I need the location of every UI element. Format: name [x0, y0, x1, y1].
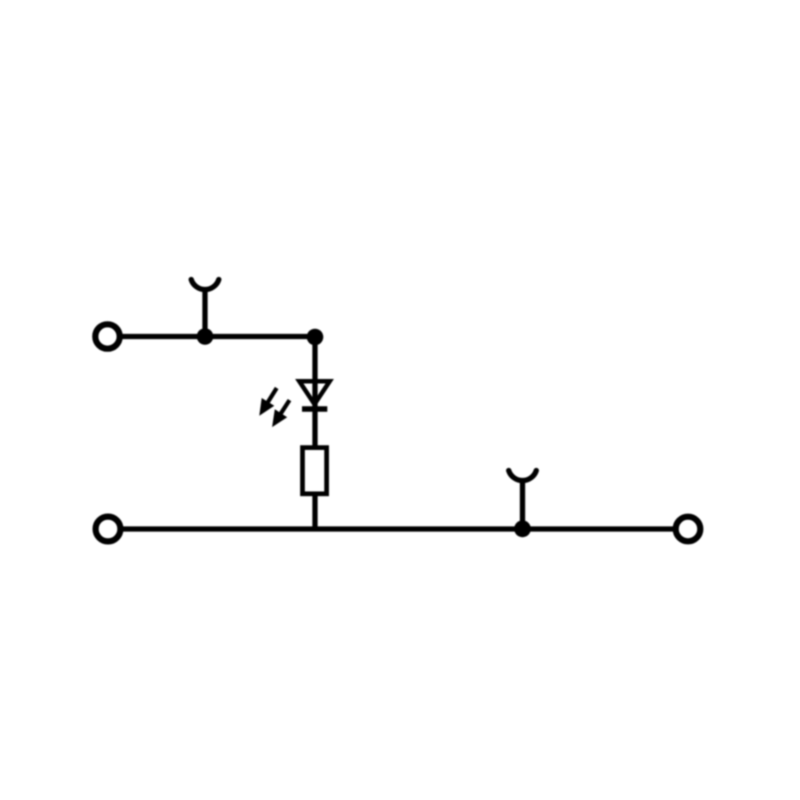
LED D1 cathode bar — [302, 406, 327, 412]
LED D1 light arrow 1 — [259, 388, 276, 416]
terminal circle (bottom-left lead) — [96, 517, 121, 542]
wire (resistor to bottom rail) — [312, 494, 317, 532]
LED D1 light arrow 2 — [272, 400, 289, 427]
wire (tap stem A) — [202, 287, 207, 337]
wire (top rail from left terminal to corner) — [119, 334, 315, 339]
test tap socket (bottom rail) — [509, 471, 537, 481]
resistor R1 body — [303, 448, 327, 494]
junction node C (bottom rail tap point) — [514, 520, 531, 537]
wire (bottom rail) — [120, 526, 676, 531]
wire (tap stem C) — [520, 478, 525, 529]
terminal circle (bottom-right lead) — [676, 517, 701, 542]
terminal circle (top-left lead) — [95, 324, 119, 348]
LED D1 anode triangle — [299, 381, 329, 404]
wire (vertical branch through LED) — [312, 337, 317, 449]
test tap socket (top rail) — [191, 280, 219, 290]
junction node B (corner of top rail and LED branch) — [307, 329, 324, 346]
junction node A (top rail tap point) — [197, 328, 214, 345]
